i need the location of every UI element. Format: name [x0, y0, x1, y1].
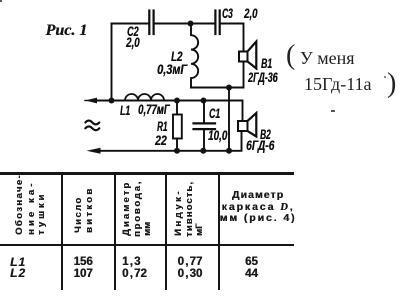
header col2 line2	[85, 186, 95, 232]
body col1: L1 L2	[10, 257, 26, 280]
table header separator	[0, 244, 294, 247]
body col3: wire diameter	[122, 256, 147, 280]
annotation text line 2	[304, 74, 372, 95]
wire: top rail from left corner to C2	[112, 23, 148, 25]
label B1 type	[248, 72, 278, 84]
table vertical line col2|col3	[114, 173, 116, 290]
wire: node T2 to C3	[191, 23, 214, 25]
capacitor C2 plates	[149, 11, 153, 35]
wire: bottom rail	[98, 150, 229, 152]
capacitor C3 plates	[215, 11, 219, 35]
capacitor C1 plates (horizontal)	[194, 123, 216, 129]
node dot: left vertical meets mid rail	[109, 98, 115, 104]
label C1	[209, 108, 220, 120]
inductor L2 (vertical coil, humps to right)	[191, 24, 198, 88]
annotation text line 1	[300, 48, 355, 69]
label L1 value 0,77мГ	[138, 104, 170, 116]
label C2 value 2,0	[126, 37, 140, 49]
annotation stray dash artifact	[331, 110, 335, 112]
header col1 line2	[27, 180, 37, 234]
input arrow bottom (bottom rail)	[87, 148, 101, 154]
body col5: frame diameter	[245, 256, 258, 280]
body col2: turns	[74, 256, 93, 280]
wire: C1 leads	[203, 101, 205, 151]
header col1 line3	[37, 191, 47, 234]
annotation opening parenthesis	[286, 40, 295, 72]
node dot: R1 top	[174, 98, 180, 104]
label C1 value	[208, 130, 227, 142]
header col1 line1	[15, 173, 25, 234]
speaker B2 driver rectangle	[238, 121, 248, 131]
wire: L2 bottom to node H	[191, 87, 229, 89]
inductor L1 (3 humps above mid rail)	[125, 94, 164, 100]
label B1	[261, 58, 272, 70]
table vertical line col1|col2	[61, 173, 63, 290]
wire: node H down to bottom rail (crosses mid rail, no dot)	[228, 88, 230, 151]
body col4: inductance	[178, 256, 203, 280]
node dot: R1 bottom	[174, 148, 180, 154]
table top border	[0, 172, 294, 175]
label L1 and value	[120, 105, 130, 117]
label B2	[260, 129, 271, 141]
node dot: C1 top	[201, 98, 207, 104]
label L2 value	[157, 64, 187, 76]
figure label "Рис. 1"	[46, 22, 88, 40]
label B2 type	[246, 140, 274, 152]
header col2 line1	[74, 196, 84, 233]
label C3 value 2,0	[244, 8, 257, 20]
resistor R1 body	[173, 115, 182, 139]
wire: B1 bottom down and left to node H	[229, 62, 244, 88]
speaker B1 driver rectangle	[239, 52, 248, 62]
node dot: C1 bottom	[200, 148, 206, 154]
label R1 value 22	[155, 135, 167, 147]
scan artifact: dark speck in top-left corner	[0, 0, 2, 2]
annotation closing parenthesis	[387, 68, 396, 100]
wire: C2 to node T2	[156, 23, 191, 25]
node dot: bottom of x229 vertical	[226, 148, 232, 154]
wire: R1 leads	[176, 101, 178, 151]
wire: mid rail from arrow to B2 corner	[96, 101, 243, 122]
wire: C3 to corner, down to speaker B1	[222, 24, 244, 52]
header col4 line3	[195, 223, 205, 235]
header col5 line2	[218, 202, 298, 214]
speaker B2 horn	[248, 113, 257, 137]
speaker B1 horn	[248, 42, 257, 69]
node T2 junction dot	[188, 21, 194, 27]
label L2	[171, 51, 182, 63]
header col5 (horizontal)	[218, 190, 298, 202]
table vertical line col4|col5	[218, 173, 220, 290]
label C3 value	[222, 8, 233, 20]
header col4 line1	[174, 189, 184, 236]
header col3 line2	[133, 180, 143, 237]
table vertical line col3|col4	[165, 173, 167, 290]
header col4 line2	[185, 180, 195, 236]
stray speck artifact	[384, 76, 386, 78]
node H junction dot	[226, 85, 232, 91]
wire: B2 bottom to bottom rail	[229, 131, 242, 151]
wire: left vertical from top rail down to mid rail	[111, 24, 113, 101]
header col3 line3	[143, 221, 153, 235]
header col3 line1	[122, 181, 132, 236]
header col5 line3	[218, 213, 298, 225]
label C2 value	[127, 26, 139, 38]
AC source symbol (approx sign)	[85, 121, 99, 131]
label R1	[157, 121, 167, 133]
input arrow top (mid rail)	[85, 100, 96, 102]
